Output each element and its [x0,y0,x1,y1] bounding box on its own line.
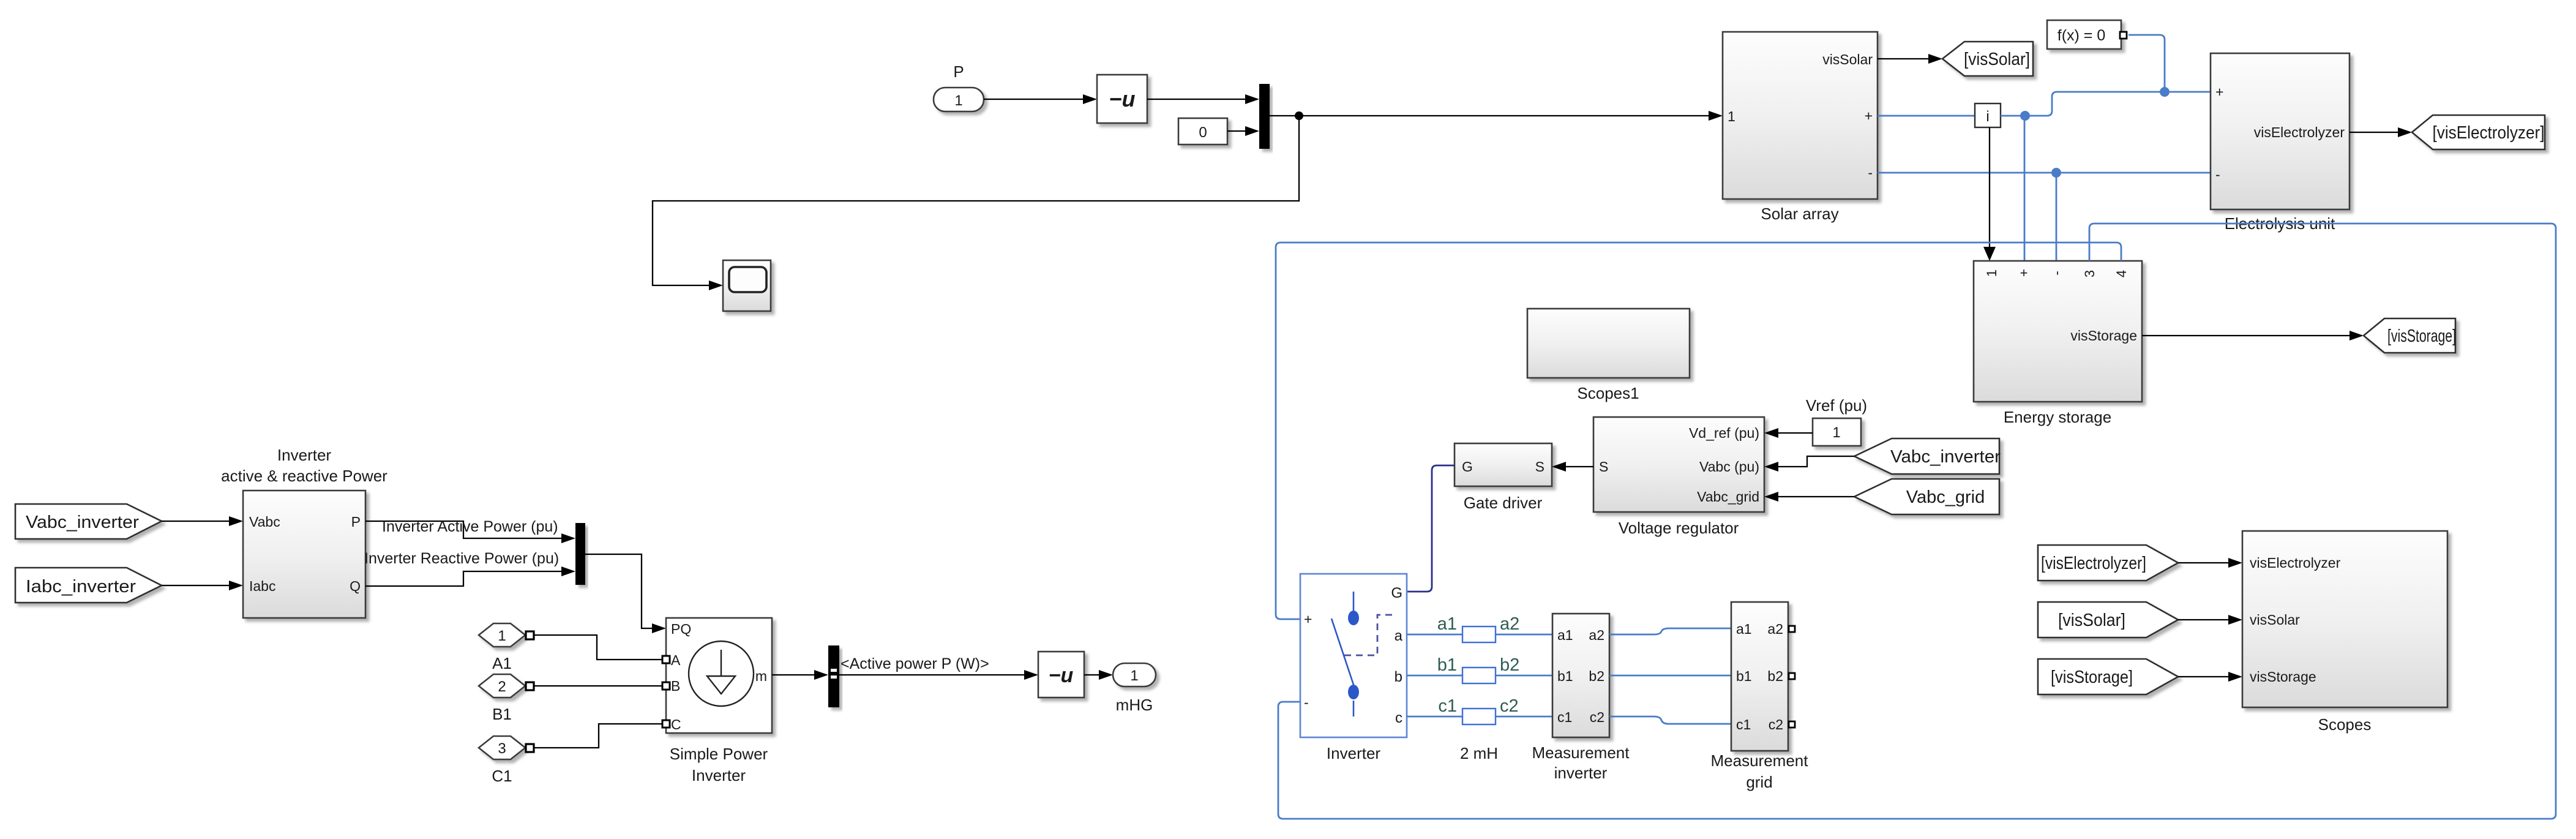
node - junction [2051,168,2061,178]
svg-text:S: S [1535,459,1544,475]
svg-text:c2: c2 [1590,709,1604,725]
wire regulator S to gate driver [1566,466,1593,467]
svg-text:b1: b1 [1437,655,1457,675]
svg-text:PQ: PQ [671,621,691,637]
svg-text:P: P [351,514,361,530]
connection port C1 [479,736,525,785]
svg-text:a2: a2 [1589,627,1604,643]
wire inductor a to measurement [1496,634,1552,636]
wire B1 to inverter B [534,685,662,687]
subsystem Inverter active & reactive Power [221,446,388,618]
wire inductor c to measurement [1496,716,1552,718]
svg-text:a2: a2 [1500,614,1519,634]
mux PQ [575,523,585,585]
svg-text:Vabc (pu): Vabc (pu) [1699,459,1759,475]
wire visElectrolyzer to goto [2349,132,2398,133]
svg-text:Iabc: Iabc [249,578,275,594]
svg-text:visElectrolyzer: visElectrolyzer [2254,124,2345,140]
svg-text:Inverter Active Power (pu): Inverter Active Power (pu) [382,518,558,535]
wire Q to mux [365,571,561,586]
svg-text:0: 0 [1199,124,1207,141]
wire i measure down to storage [1989,127,1990,247]
svg-text:−u: −u [1049,664,1074,687]
svg-text:Vabc_inverter: Vabc_inverter [1890,447,2001,467]
svg-text:<Active power P (W)>: <Active power P (W)> [841,655,989,672]
svg-text:a2: a2 [1767,621,1783,637]
svg-text:Solar array: Solar array [1761,205,1838,223]
subsystem Measurement inverter [1532,614,1630,782]
node + junction [2020,111,2030,121]
node junction [1295,111,1303,120]
svg-text:2: 2 [498,679,506,695]
svg-text:visSolar: visSolar [2250,612,2300,628]
wire mux to Solar array [1270,115,1709,116]
svg-text:visSolar: visSolar [1822,51,1873,67]
svg-text:b2: b2 [1500,655,1519,675]
svg-text:i: i [1986,108,1989,125]
svg-text:P: P [953,62,964,81]
wire solar + to i [1878,115,1975,117]
wire Vref to regulator [1778,432,1813,434]
goto tag [visElectrolyzer] [2412,115,2545,149]
svg-text:[visStorage]: [visStorage] [2387,326,2456,346]
from tag Vabc_inverter [1854,438,2001,474]
constant Vref (pu) [1806,396,1867,446]
wire storage port3 big loop [1278,224,2556,819]
from tag Vabc_inverter left [15,504,162,539]
svg-text:G: G [1462,459,1473,475]
wire bus to gain [839,674,1024,675]
svg-text:visElectrolyzer: visElectrolyzer [2250,555,2341,571]
svg-text:B: B [671,678,680,694]
svg-text:A: A [671,652,681,668]
port square A [662,656,670,663]
svg-text:c1: c1 [1438,696,1457,716]
wire f(x) to node [2129,35,2165,92]
svg-text:Q: Q [350,578,361,594]
svg-text:Measurement: Measurement [1711,751,1809,770]
svg-text:S: S [1599,459,1608,475]
port square grid c2 [1789,721,1795,728]
goto tag [visStorage] [2364,318,2456,353]
wire storage port4 loop [1276,243,2121,619]
wire meas a2 to grid a1 [1609,628,1731,634]
svg-text:−u: −u [1109,86,1135,111]
subsystem Scopes1 [1527,309,1690,402]
wire i out [2001,115,2025,117]
wire A1 to inverter A [534,635,662,660]
wire visSolar to goto [1878,58,1928,59]
svg-text:a1: a1 [1557,627,1573,643]
current measure i [1975,103,2001,127]
from tag [visElectrolyzer] [2038,545,2178,581]
svg-text:a: a [1395,628,1403,644]
wire visStorage to goto [2142,335,2349,336]
wire inverter c to inductor [1407,716,1462,718]
svg-text:Inverter: Inverter [692,766,746,784]
svg-text:3: 3 [498,740,506,757]
svg-text:b1: b1 [1736,668,1752,684]
svg-text:3: 3 [2082,270,2097,277]
svg-text:mHG: mHG [1116,696,1153,714]
connection port B1 [479,674,525,723]
svg-text:a1: a1 [1736,621,1752,637]
svg-text:1: 1 [954,92,962,109]
inductor a 2mH [1462,626,1496,642]
gain -u 2 [1038,652,1084,698]
constant 0 [1178,118,1227,145]
svg-text:+: + [2215,84,2223,100]
svg-text:Iabc_inverter: Iabc_inverter [26,577,136,596]
svg-text:1: 1 [1832,424,1840,441]
bus selector [828,645,839,707]
subsystem Electrolysis unit [2211,53,2349,233]
svg-text:Inverter Reactive Power (pu): Inverter Reactive Power (pu) [364,550,559,567]
svg-text:[visElectrolyzer]: [visElectrolyzer] [2433,123,2545,143]
svg-text:Vabc: Vabc [249,514,280,530]
svg-text:inverter: inverter [1554,764,1608,782]
inductor c 2mH [1462,709,1496,724]
port square grid b2 [1789,673,1795,679]
svg-text:-: - [2215,167,2220,182]
svg-text:Measurement: Measurement [1532,743,1630,762]
subsystem Gate driver [1455,443,1552,512]
svg-text:active & reactive Power: active & reactive Power [221,467,388,485]
node fx junction [2160,87,2170,97]
connection port A1 [479,623,525,672]
svg-text:b2: b2 [1767,668,1783,684]
block Simple Power Inverter [666,618,772,784]
svg-text:[visStorage]: [visStorage] [2051,668,2133,687]
from tag Iabc_inverter left [15,568,162,603]
svg-text:2 mH: 2 mH [1460,744,1498,762]
subsystem Inverter [1300,574,1407,762]
scope block [723,260,771,311]
wire meas c2 to grid c1 [1609,717,1731,724]
svg-text:[visElectrolyzer]: [visElectrolyzer] [2041,554,2146,573]
mux Mux1 [1259,84,1270,149]
svg-text:Vabc_grid: Vabc_grid [1906,487,1985,507]
wire + step up to electrolysis [2025,92,2211,116]
wire Iabc to block [162,585,229,586]
wire P to mux [365,521,561,538]
inport P [934,62,984,111]
port square B [662,682,670,690]
from tag [visStorage] [2038,659,2178,694]
svg-text:c2: c2 [1500,696,1519,716]
svg-text:1: 1 [1130,668,1138,684]
svg-text:[visSolar]: [visSolar] [1964,50,2030,69]
wire gain to mux [1147,99,1245,100]
subsystem Voltage regulator [1593,417,1764,537]
svg-text:grid: grid [1746,773,1772,791]
wire inverter a to inductor [1407,634,1462,636]
wire inductor b to measurement [1496,675,1552,677]
wire gate G navy [1407,465,1455,592]
inductor b 2mH [1462,668,1496,683]
svg-text:Scopes1: Scopes1 [1577,384,1639,402]
svg-text:m: m [755,668,767,684]
svg-text:Inverter: Inverter [1327,744,1380,762]
wire mux to PQ port [585,554,652,628]
svg-text:Vd_ref (pu): Vd_ref (pu) [1689,425,1759,441]
svg-text:Energy storage: Energy storage [2004,408,2111,426]
algebraic constraint f(x) = 0 [2047,20,2127,49]
wire C1 to inverter C [534,724,662,748]
svg-text:visStorage: visStorage [2070,328,2137,344]
svg-text:c2: c2 [1769,717,1783,732]
wire solar - to electrolysis [1878,172,2211,174]
svg-text:+: + [1865,108,1873,124]
svg-text:G: G [1391,585,1402,601]
svg-text:1: 1 [1728,108,1735,124]
subsystem Measurement grid [1711,602,1809,791]
svg-text:Vabc_grid: Vabc_grid [1697,489,1759,505]
svg-text:c1: c1 [1736,717,1751,732]
subsystem Energy storage [1974,261,2142,426]
svg-text:[visSolar]: [visSolar] [2058,611,2125,630]
svg-text:Inverter: Inverter [277,446,331,464]
gain -u [1097,75,1147,123]
svg-text:-: - [1868,165,1873,181]
wire Vabc to block [162,521,229,522]
svg-text:b2: b2 [1589,668,1604,684]
svg-text:Simple Power: Simple Power [670,745,768,763]
goto tag [visSolar] [1942,42,2033,76]
wire P to gain [984,99,1083,100]
svg-text:4: 4 [2114,270,2129,277]
svg-text:Voltage regulator: Voltage regulator [1619,519,1739,537]
svg-text:1: 1 [1984,269,1999,277]
wire to scopes 1 [2178,562,2228,563]
svg-text:b: b [1395,669,1402,685]
subsystem Solar array [1723,32,1878,223]
wire branch to scope [653,116,1299,285]
svg-text:visStorage: visStorage [2250,669,2316,685]
svg-text:B1: B1 [492,705,512,723]
from tag Vabc_grid [1854,479,1999,514]
svg-text:1: 1 [498,628,506,644]
svg-text:-: - [2049,271,2064,275]
svg-text:c: c [1395,710,1402,726]
port square C [662,720,670,728]
wire - down to storage [2056,173,2057,261]
wire meas b2 to grid b1 [1609,675,1731,677]
svg-text:+: + [1304,611,1312,627]
svg-text:Scopes: Scopes [2318,715,2372,734]
wire m to bus selector [772,674,814,675]
svg-text:a1: a1 [1437,614,1457,634]
wire + down to storage [2024,116,2026,261]
svg-text:-: - [1304,694,1309,710]
svg-text:A1: A1 [492,654,512,672]
port square grid a2 [1789,626,1795,632]
svg-text:+: + [2020,265,2028,280]
svg-text:C1: C1 [492,767,512,785]
outport mHG [1113,663,1156,714]
svg-text:f(x) = 0: f(x) = 0 [2057,27,2106,44]
svg-text:Gate driver: Gate driver [1464,494,1543,512]
svg-text:Vref (pu): Vref (pu) [1806,396,1867,415]
svg-text:C: C [671,717,681,732]
wire to scopes 3 [2178,676,2228,677]
svg-text:c1: c1 [1557,709,1572,725]
subsystem Scopes [2242,531,2447,734]
svg-text:b1: b1 [1557,668,1573,684]
svg-text:Vabc_inverter: Vabc_inverter [26,513,139,532]
wire Vabc_grid to regulator [1778,496,1854,497]
wire to scopes 2 [2178,619,2228,620]
wire Vabc to regulator [1778,456,1854,467]
from tag [visSolar] [2038,602,2178,638]
wire inverter b to inductor [1407,675,1462,677]
wire gain to outport [1084,674,1099,675]
wire const to mux [1227,130,1245,132]
